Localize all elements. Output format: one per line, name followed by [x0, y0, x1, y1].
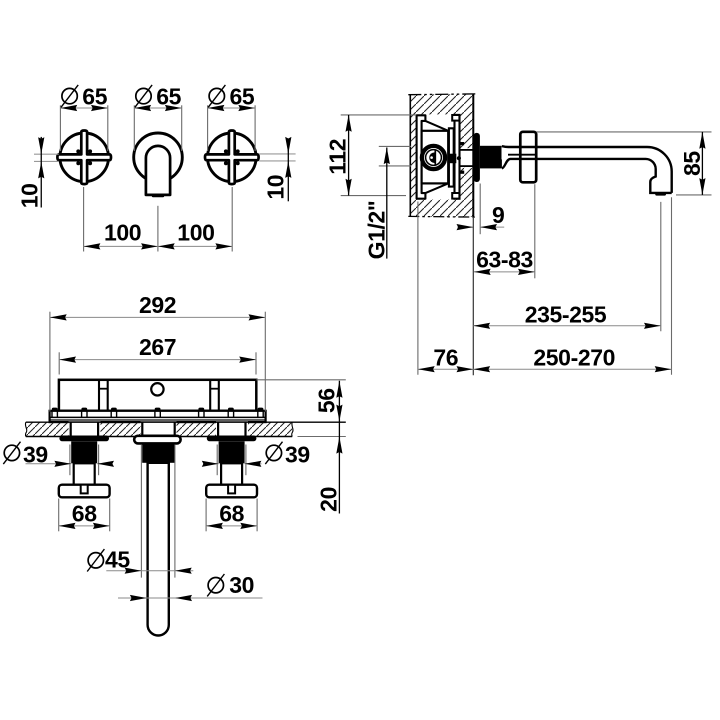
left valve trim (below wall) — [59, 436, 110, 498]
cartridge (circle) — [422, 146, 445, 169]
dimension d65 at x=60.4 — [60, 84, 107, 152]
svg-text:10: 10 — [16, 184, 42, 209]
dimension 56 and 20 — [256, 380, 346, 514]
svg-text:65: 65 — [156, 84, 181, 110]
center spout trim (below wall) — [134, 436, 180, 636]
spout collar/flange — [520, 132, 536, 183]
wall section (hatched) — [408, 94, 476, 218]
svg-text:9: 9 — [492, 202, 504, 228]
dimension d45 — [87, 445, 193, 578]
svg-text:100: 100 — [177, 219, 214, 245]
wall stubs — [71, 422, 246, 437]
valve outlet hub and inlet stub — [449, 142, 474, 174]
dimension 250-270 — [473, 197, 671, 374]
dimension 9 — [457, 184, 505, 235]
right valve trim (below wall) — [206, 436, 257, 498]
dimension 100-100 — [84, 187, 233, 252]
svg-text:39: 39 — [285, 441, 310, 467]
mounting rail — [50, 408, 266, 422]
cross handle right (front view) — [205, 131, 259, 185]
svg-text:85: 85 — [679, 151, 705, 176]
cross handle left (front view) — [57, 131, 111, 185]
dimension 63-83 — [473, 184, 535, 375]
dimension G1/2 inch — [363, 146, 411, 259]
dimension 85 — [537, 132, 712, 195]
dimension d39 right — [202, 441, 310, 475]
svg-text:100: 100 — [104, 219, 141, 245]
svg-text:20: 20 — [316, 487, 342, 512]
svg-text:68: 68 — [72, 500, 97, 526]
svg-text:235-255: 235-255 — [525, 301, 607, 327]
dimension d39 left — [3, 441, 114, 475]
svg-text:56: 56 — [314, 388, 340, 413]
svg-text:250-270: 250-270 — [533, 344, 615, 370]
spout base block — [480, 146, 502, 169]
svg-text:65: 65 — [230, 84, 255, 110]
spout tube (side) — [502, 146, 672, 196]
in-wall valve body (side view) — [417, 115, 460, 199]
svg-text:63-83: 63-83 — [476, 247, 533, 273]
dimension 10 left — [16, 137, 58, 208]
spout escutcheon (front view, center) — [134, 133, 183, 182]
dimension 10 right — [259, 137, 295, 201]
dimension 68 right — [206, 499, 257, 532]
dimension 68 left — [59, 499, 110, 532]
svg-text:112: 112 — [325, 139, 351, 175]
wall band (hatched, section) — [25, 421, 345, 437]
dimension 267 — [59, 334, 256, 374]
dimension 76 — [418, 202, 473, 375]
rough-in box — [59, 380, 256, 411]
dimension d30 — [118, 572, 263, 601]
dimension 292 — [50, 292, 265, 412]
svg-text:267: 267 — [139, 334, 176, 360]
svg-text:65: 65 — [82, 84, 107, 110]
svg-text:30: 30 — [229, 572, 254, 598]
dimension 112 — [325, 115, 417, 196]
wall escutcheon (side) — [474, 133, 480, 182]
svg-text:G1/2": G1/2" — [363, 201, 389, 260]
svg-text:68: 68 — [219, 500, 244, 526]
dimension d65 at x=134.3 — [134, 84, 181, 152]
spout tube (front view) — [146, 146, 170, 197]
svg-text:292: 292 — [139, 292, 176, 318]
svg-text:10: 10 — [262, 175, 288, 200]
svg-text:76: 76 — [433, 344, 458, 370]
dimension d65 at x=207.6 — [208, 84, 256, 152]
dimension 235-255 — [473, 202, 661, 331]
